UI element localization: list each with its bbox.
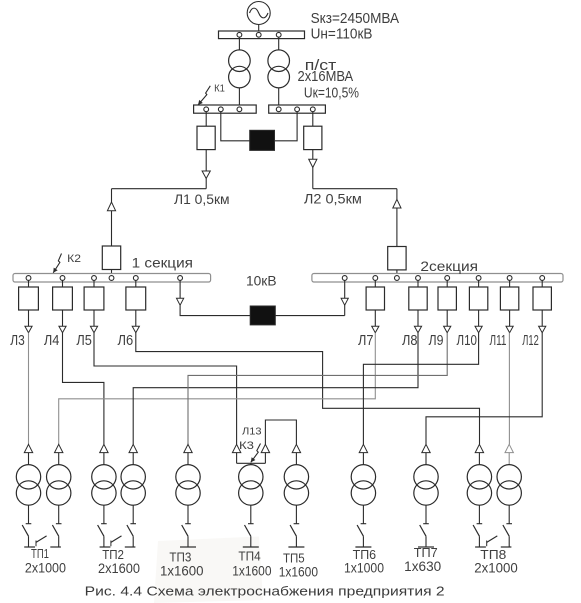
svg-text:Sкз=2450МВА: Sкз=2450МВА [311, 10, 400, 27]
wire feeder stub Л6 [135, 280, 137, 287]
wire feeder stub Л3 [28, 280, 30, 287]
node A2 [218, 107, 223, 112]
transformer TP7 [414, 465, 438, 489]
svg-text:1х1600: 1х1600 [160, 564, 204, 579]
node section2 feeder 5 [507, 276, 512, 281]
cable L5 run [94, 333, 237, 445]
transformer TP4 [239, 465, 263, 489]
feeder breaker Л11 [500, 287, 518, 310]
cable end Л6 [132, 326, 139, 333]
cable L8 run [133, 333, 418, 445]
node on 110kV bus right [276, 32, 281, 37]
feeder breaker Л4 [53, 287, 73, 310]
svg-text:Рис. 4.4 Схема электроснабжени: Рис. 4.4 Схема электроснабжения предприя… [85, 584, 445, 599]
wire TP4 junction [237, 462, 266, 464]
wire breaker to cable end Л12 [541, 310, 543, 326]
transformer T1 [229, 50, 251, 72]
svg-text:К2: К2 [67, 253, 81, 265]
svg-text:2х1600: 2х1600 [98, 561, 140, 576]
switch TP3 [187, 505, 189, 524]
svg-text:К3: К3 [239, 440, 254, 452]
wire feeder stub Л10 [478, 280, 480, 287]
wire feeder stub Л11 [509, 280, 511, 287]
transformer TP8a [467, 465, 491, 489]
fault K3 arrow [251, 444, 261, 463]
busbar 110kV [219, 31, 305, 39]
wire L1 to Q3 [111, 211, 113, 246]
node section1 feeder 1 [26, 276, 31, 281]
wire breaker to cable end Л9 [446, 310, 448, 326]
svg-text:Л3: Л3 [10, 333, 24, 349]
svg-text:10кВ: 10кВ [246, 273, 277, 289]
wire TP1b [58, 453, 60, 465]
wire TP4 feed [236, 453, 238, 464]
lv bus TP5 [288, 546, 304, 548]
breaker Q4 (section 2 incomer) [388, 247, 406, 270]
cable end TP8a [475, 444, 483, 452]
lv tie switch TP2 [111, 536, 122, 543]
svg-text:Л9: Л9 [429, 333, 444, 349]
cable end TP2a [100, 444, 108, 452]
cable end TP4 feed [232, 444, 240, 452]
wire TP2a [103, 453, 105, 465]
cable end TP7 [422, 444, 430, 452]
transformer TP1b [47, 465, 71, 489]
lv bus TP2a [100, 546, 111, 548]
node section2 feeder 2 [416, 276, 421, 281]
cable end tie left [177, 298, 184, 305]
lv bus TP1b [50, 546, 61, 548]
tie reactor (closed) mid [250, 306, 275, 325]
node section2 feeder 6 [540, 276, 545, 281]
svg-text:ТП2: ТП2 [102, 547, 124, 562]
wire feeder stub Л4 [62, 280, 64, 287]
transformer TP6 [351, 465, 375, 489]
node section1 incomer [109, 276, 114, 281]
feeder breaker Л5 [84, 287, 104, 310]
svg-text:Л12: Л12 [522, 333, 539, 349]
wire feeder stub Л5 [93, 280, 95, 287]
wire breaker to cable end Л8 [417, 310, 419, 326]
cable end TP3 [184, 444, 192, 452]
svg-text:1х630: 1х630 [404, 559, 441, 574]
cable end TP8b [505, 444, 513, 452]
wire bus to T2 [278, 37, 280, 50]
node section2 feeder 3 [445, 276, 450, 281]
wire feeder stub Л8 [417, 280, 419, 287]
transformer TP2a [92, 465, 116, 489]
breaker Q1 [197, 126, 215, 149]
wire bus to T1 [238, 37, 240, 50]
svg-text:Uк=10,5%: Uк=10,5% [304, 86, 359, 102]
generator G (system source) [247, 2, 270, 25]
node section2 incomer [395, 276, 400, 281]
switch TP7 [425, 505, 427, 524]
node B1 [276, 107, 281, 112]
cable L6 run [136, 333, 480, 445]
wire L1 drop [205, 179, 207, 189]
watermark stain [154, 537, 263, 603]
busbar A (left secondary) [194, 105, 257, 113]
transformer TP8b [497, 465, 521, 489]
switch TP5 [295, 505, 297, 524]
cable end Л10 [475, 326, 482, 333]
cable L3 run [28, 333, 30, 445]
wire gen to 110kV bus [258, 25, 260, 32]
busbar section 1 (10kV) [13, 274, 211, 283]
cable end Л3 [25, 326, 32, 333]
wire TP7 [425, 453, 427, 465]
cable L1 horizontal [112, 188, 207, 190]
switch TP8a [478, 505, 480, 524]
svg-text:Л4: Л4 [44, 333, 60, 349]
transformer TP3 [176, 465, 200, 489]
svg-text:2х1000: 2х1000 [25, 560, 66, 575]
feeder breaker Л7 [366, 287, 384, 310]
wire feeder stub Л12 [541, 280, 543, 287]
wire T2 to bus B [278, 88, 280, 105]
svg-text:1х1600: 1х1600 [232, 564, 271, 579]
transformer TP2b [121, 465, 145, 489]
cable end Л11 [506, 326, 513, 333]
cable end L2 top [309, 159, 317, 167]
cable end TP2b [129, 444, 137, 452]
wire Q1 down [205, 150, 207, 171]
wire section1 tie drop [179, 280, 181, 298]
cable L7 run [59, 333, 376, 445]
svg-text:ТП4: ТП4 [238, 549, 260, 564]
wire TP5 [295, 453, 297, 465]
node A1 [204, 107, 209, 112]
cable end TP6 [359, 444, 367, 452]
svg-text:Л2 0,5км: Л2 0,5км [304, 191, 362, 207]
feeder breaker Л10 [469, 287, 487, 310]
wire B3 down [312, 112, 314, 127]
lv tie switch TP1 [36, 536, 47, 543]
transformer TP5 [284, 465, 308, 489]
node B2 [295, 107, 300, 112]
svg-text:Л10: Л10 [457, 333, 478, 349]
wire T1 to bus A [238, 88, 240, 105]
cable L13 run [265, 420, 296, 447]
feeder breaker Л3 [19, 287, 39, 310]
svg-text:Л1 0,5км: Л1 0,5км [174, 191, 230, 207]
node section1 feeder 2 [60, 276, 65, 281]
wire TP2b [132, 453, 134, 465]
feeder breaker Л8 [409, 287, 427, 310]
busbar section 2 (10kV) [312, 274, 563, 283]
svg-text:Л8: Л8 [402, 333, 418, 349]
transformer TP1a [16, 465, 40, 489]
cable end L1 top [202, 171, 210, 179]
lv bus TP6 [355, 546, 371, 548]
svg-text:ТП7: ТП7 [414, 545, 438, 560]
cable end TP1a [24, 444, 32, 452]
svg-text:Л13: Л13 [242, 426, 262, 437]
cable L10 run [363, 333, 478, 445]
node B3 [310, 107, 315, 112]
node section1 tie [178, 276, 183, 281]
wire L13 left leg [264, 453, 266, 464]
lv bus TP1a [24, 546, 35, 548]
switch TP1b [58, 505, 60, 524]
lv tie switch TP8 [487, 536, 498, 543]
svg-text:2х16МВА: 2х16МВА [298, 68, 354, 85]
cable end Л7 [372, 326, 379, 333]
node section1 feeder 4 [133, 276, 138, 281]
feeder breaker Л9 [438, 287, 456, 310]
switch TP2b [132, 505, 134, 524]
wire feeder stub Л7 [374, 280, 376, 287]
wire breaker to cable end Л7 [374, 310, 376, 326]
busbar B (right secondary) [269, 105, 326, 113]
node section2 feeder 1 [373, 276, 378, 281]
node section1 feeder 3 [92, 276, 97, 281]
wire breaker to cable end Л10 [478, 310, 480, 326]
cable end TP5 [292, 444, 300, 452]
node A3 [237, 107, 242, 112]
wire L2 drop [312, 168, 314, 189]
lv bus TP8b [501, 546, 512, 548]
node section2 feeder 4 [476, 276, 481, 281]
wire TP8a [478, 453, 480, 465]
wire reactor to tie right [275, 315, 344, 317]
svg-text:1 секция: 1 секция [132, 255, 193, 271]
switch TP1a [28, 505, 30, 524]
lv bus TP4 [243, 546, 259, 548]
svg-text:Л7: Л7 [358, 333, 374, 349]
lv bus TP2b [125, 546, 136, 548]
lv bus TP8a [475, 546, 486, 548]
wire TP8b [508, 453, 510, 465]
transformer T2 [268, 50, 290, 72]
switch TP8b [508, 505, 510, 524]
wire breaker to cable end Л3 [28, 310, 30, 326]
wire L2 riser [396, 189, 398, 200]
wire breaker to cable end Л4 [62, 310, 64, 326]
wire Q2 down [312, 150, 314, 160]
switch TP2a [103, 505, 105, 524]
svg-text:К1: К1 [214, 83, 225, 95]
svg-text:Л5: Л5 [76, 333, 92, 349]
svg-text:2секция: 2секция [420, 258, 478, 274]
svg-text:1х1600: 1х1600 [279, 564, 318, 579]
wire tie left to reactor [180, 305, 250, 315]
feeder breaker Л6 [126, 287, 146, 310]
switch TP4 [250, 505, 252, 524]
cable L9 run [188, 333, 447, 445]
breaker Q3 (section 1 incomer) [102, 246, 120, 270]
cable end tie right [341, 298, 348, 305]
wire TP4 stub [250, 463, 252, 465]
switch TP6 [362, 505, 364, 524]
cable end Л12 [539, 326, 546, 333]
cable L12 run [426, 333, 542, 445]
tie reactor (closed) top [250, 130, 275, 150]
svg-text:2х1000: 2х1000 [474, 561, 518, 576]
lv bus TP3 [180, 546, 196, 548]
wire TP3 [187, 453, 189, 465]
cable end L13 left [261, 444, 269, 452]
wire section2 tie drop [344, 280, 346, 298]
wire A2 to tie [221, 112, 250, 141]
cable L4 run [63, 333, 104, 445]
cable L11 run [508, 333, 510, 445]
cable end TP1b [55, 444, 63, 452]
cable end Л5 [90, 326, 97, 333]
svg-text:Л6: Л6 [118, 333, 134, 349]
wire feeder stub Л9 [446, 280, 448, 287]
wire breaker to cable end Л11 [509, 310, 511, 326]
wire tie to B2 [275, 112, 298, 141]
cable end Л4 [59, 326, 66, 333]
svg-text:ТП1: ТП1 [31, 546, 49, 561]
wire Q4 to section 2 [396, 270, 398, 274]
wire TP1a [28, 453, 30, 465]
lv bus TP7 [418, 546, 434, 548]
node on 110kV bus left [237, 32, 242, 37]
wire Q3 to section 1 [111, 270, 113, 274]
node section2 tie [342, 276, 347, 281]
wire breaker to cable end Л6 [135, 310, 137, 326]
wire L1 riser [111, 189, 113, 202]
fault K2 arrow [53, 254, 61, 273]
svg-text:1х1000: 1х1000 [344, 561, 384, 576]
svg-text:ТП3: ТП3 [169, 550, 191, 565]
cable end L2 bottom [393, 199, 401, 208]
wire A1 down [205, 112, 207, 127]
cable end L1 bottom [107, 202, 115, 211]
cable end Л9 [444, 326, 451, 333]
breaker Q2 [304, 126, 322, 149]
wire TP6 [362, 453, 364, 465]
feeder breaker Л12 [533, 287, 551, 310]
fault K1 arrow [198, 86, 210, 105]
wire L2 to Q4 [396, 208, 398, 247]
svg-text:Uн=110кВ: Uн=110кВ [311, 26, 373, 43]
node on 110kV bus mid [256, 32, 261, 37]
cable end Л8 [414, 326, 421, 333]
cable L2 horizontal [313, 188, 397, 190]
wire breaker to cable end Л5 [93, 310, 95, 326]
svg-text:Л11: Л11 [490, 333, 507, 349]
